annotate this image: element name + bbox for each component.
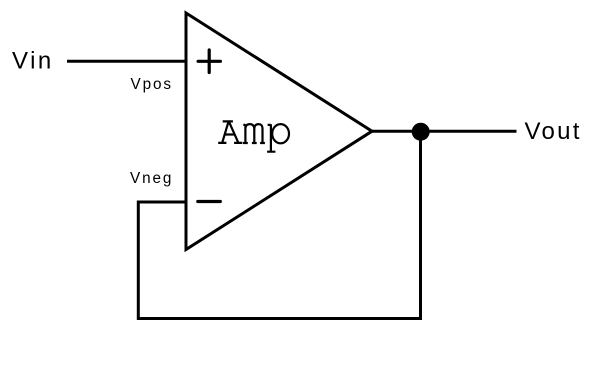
op-amp U1 body <box>186 13 372 250</box>
svg-text:Vout: Vout <box>525 118 582 145</box>
wire: feedback from output node to inverting pin <box>138 132 420 319</box>
op-amp non-inverting input + symbol <box>198 50 220 73</box>
svg-text:Vneg: Vneg <box>130 170 173 187</box>
op-amp inverting input − symbol <box>198 200 221 203</box>
wire: Vin input to non-inverting pin <box>67 60 186 63</box>
svg-text:Vin: Vin <box>12 48 54 75</box>
value label Amp (slab-serif lettering) <box>218 121 289 151</box>
junction dot at output node <box>412 123 430 141</box>
svg-text:Vpos: Vpos <box>131 76 173 93</box>
wire: output from apex <box>372 130 517 133</box>
